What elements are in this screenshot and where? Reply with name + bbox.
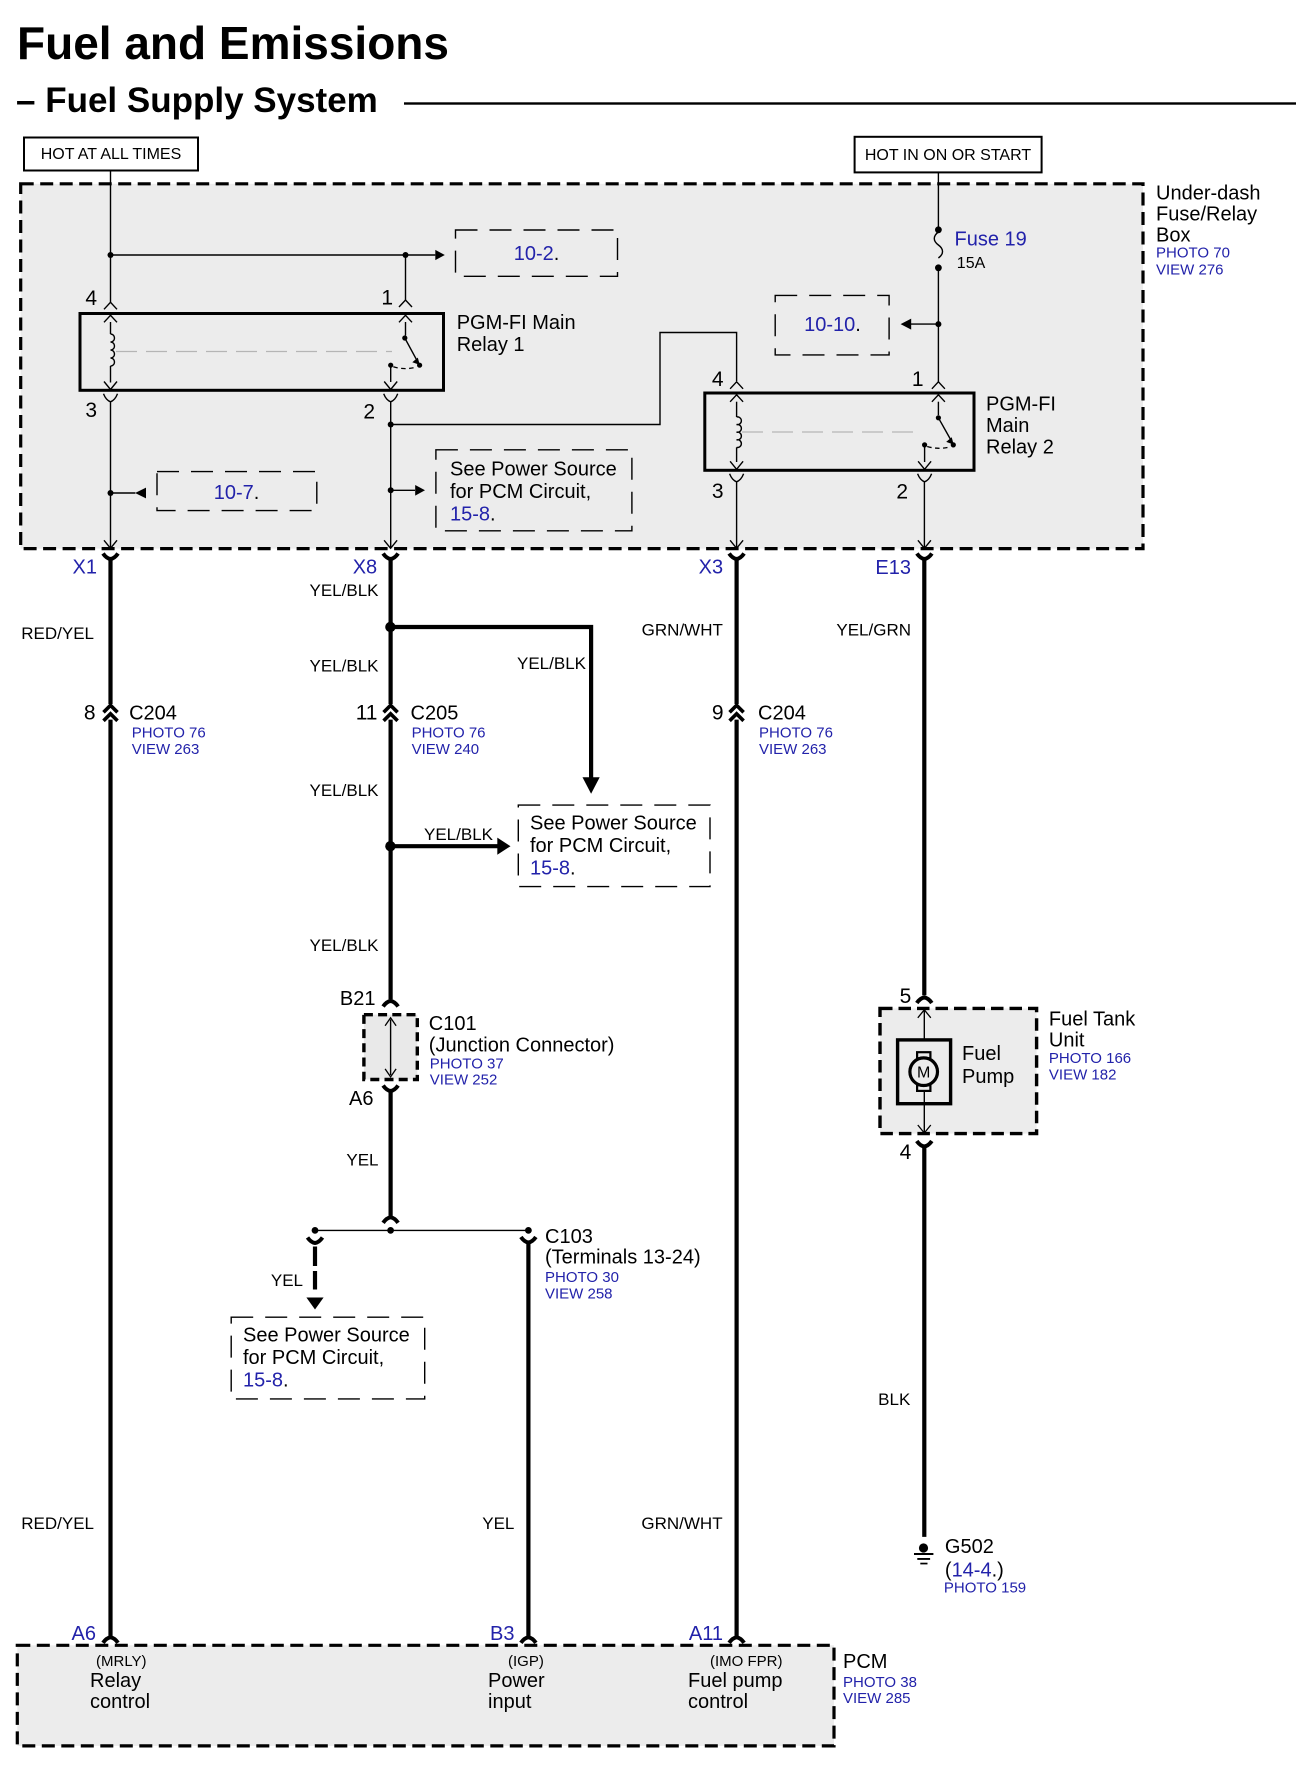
svg-text:YEL/BLK: YEL/BLK bbox=[424, 825, 494, 844]
svg-text:3: 3 bbox=[85, 399, 97, 422]
svg-text:Under-dash: Under-dash bbox=[1156, 183, 1261, 205]
svg-text:PHOTO 30: PHOTO 30 bbox=[545, 1269, 619, 1286]
relay 2 switch bbox=[918, 402, 956, 470]
svg-text:YEL/GRN: YEL/GRN bbox=[836, 621, 911, 640]
svg-text:B21: B21 bbox=[340, 988, 376, 1010]
node junction relay1 pin2 to relay2 link bbox=[388, 422, 394, 428]
svg-text:4: 4 bbox=[900, 1141, 912, 1164]
connector B21 wire end bbox=[383, 1001, 398, 1007]
svg-text:1: 1 bbox=[381, 287, 393, 310]
svg-text:4: 4 bbox=[85, 287, 97, 310]
connector A6 wire start bbox=[383, 1086, 398, 1092]
svg-text:PHOTO 76: PHOTO 76 bbox=[759, 725, 833, 742]
label Under-dash Fuse/Relay Box bbox=[1156, 183, 1261, 279]
wire BLK to ground bbox=[922, 1147, 926, 1537]
svg-text:HOT AT ALL TIMES: HOT AT ALL TIMES bbox=[41, 146, 182, 163]
note box See Power Source 2 bbox=[518, 805, 710, 887]
node junction at top bus bbox=[108, 252, 114, 258]
svg-text:PGM-FI: PGM-FI bbox=[986, 394, 1056, 416]
svg-text:PHOTO 38: PHOTO 38 bbox=[843, 1674, 917, 1691]
svg-text:3: 3 bbox=[712, 480, 724, 503]
svg-text:(Junction Connector): (Junction Connector) bbox=[429, 1035, 615, 1057]
svg-text:15-8.: 15-8. bbox=[530, 858, 576, 880]
svg-text:PHOTO 76: PHOTO 76 bbox=[412, 725, 486, 742]
svg-text:PCM: PCM bbox=[843, 1651, 887, 1673]
svg-text:BLK: BLK bbox=[878, 1390, 911, 1409]
svg-text:GRN/WHT: GRN/WHT bbox=[642, 621, 723, 640]
svg-text:10-7.: 10-7. bbox=[214, 482, 260, 504]
label G502 14-4 PHOTO 159 bbox=[944, 1536, 1026, 1597]
svg-text:C205: C205 bbox=[411, 703, 459, 725]
note box See Power Source 3 bbox=[231, 1317, 425, 1399]
relay 1 switch bbox=[384, 322, 422, 390]
svg-text:10-2.: 10-2. bbox=[514, 243, 560, 265]
fuel tank inner wire top with arrow bbox=[918, 1010, 931, 1052]
svg-text:YEL: YEL bbox=[271, 1271, 303, 1290]
wire YEL to PCM B3 bbox=[526, 1243, 530, 1637]
fuse 19 value label bbox=[955, 229, 1027, 273]
label C103 Terminals 13-24 bbox=[545, 1226, 701, 1303]
arrow to 10-10 reference bbox=[901, 319, 939, 330]
junction connector C101 box bbox=[364, 1015, 417, 1080]
svg-text:Relay 2: Relay 2 bbox=[986, 437, 1054, 459]
node junction at 10-7 tap bbox=[108, 490, 114, 496]
pin 2 connector relay 2 bbox=[918, 474, 932, 482]
node C103 bus left bbox=[312, 1227, 319, 1234]
arrow to power source note 1 bbox=[391, 485, 425, 496]
connector X8 border exit bbox=[383, 540, 398, 559]
connector YEL branch start bbox=[308, 1238, 323, 1244]
svg-text:M: M bbox=[917, 1065, 930, 1082]
svg-text:YEL/BLK: YEL/BLK bbox=[517, 654, 587, 673]
reference box 10-2 bbox=[456, 230, 618, 276]
wire X8 YEL/BLK mid bbox=[389, 720, 393, 1000]
wire from HOT AT ALL TIMES down to relay 1 pin 4 bbox=[110, 171, 112, 303]
wire X1 RED/YEL lower bbox=[108, 720, 112, 1636]
label IMO FPR Fuel pump control bbox=[688, 1653, 783, 1713]
wire link relay 1 pin 2 to relay 2 pin 4 bbox=[391, 333, 737, 425]
svg-text:VIEW 276: VIEW 276 bbox=[1156, 262, 1224, 279]
wire X8 YEL/BLK upper bbox=[389, 559, 393, 704]
fuse F19 bbox=[934, 172, 942, 381]
wire X3 GRN/WHT lower to PCM A11 bbox=[734, 720, 738, 1636]
svg-text:See Power Source: See Power Source bbox=[243, 1325, 410, 1347]
svg-text:(IMO FPR): (IMO FPR) bbox=[710, 1653, 783, 1670]
svg-text:Fuel and Emissions: Fuel and Emissions bbox=[17, 17, 449, 69]
svg-text:15A: 15A bbox=[957, 255, 986, 272]
svg-text:Pump: Pump bbox=[962, 1066, 1014, 1088]
svg-text:HOT IN ON OR START: HOT IN ON OR START bbox=[865, 147, 1031, 164]
arrow into 10-2 reference bbox=[435, 250, 445, 260]
wire relay 2 pin 3 down to X3 bbox=[736, 482, 738, 548]
fuel tank unit box bbox=[880, 1008, 1037, 1133]
label C204 PHOTO 76 VIEW 263 bbox=[129, 703, 206, 759]
label Fuel Tank Unit bbox=[1049, 1009, 1136, 1084]
connector wire end at C103 bus bbox=[383, 1217, 398, 1223]
relay U2 PGM-FI Main Relay 2 body bbox=[705, 393, 974, 470]
arrow to power source note 2 bbox=[390, 838, 510, 855]
pin 3 connector relay 2 bbox=[730, 474, 744, 482]
svg-text:PGM-FI Main: PGM-FI Main bbox=[457, 312, 576, 334]
svg-text:Power: Power bbox=[488, 1670, 545, 1692]
wire relay 1 pin 2 down to X8 bbox=[390, 402, 392, 548]
svg-text:X1: X1 bbox=[73, 557, 97, 579]
wire C103 bus bbox=[315, 1229, 528, 1231]
wire down to relay 1 pin 1 bbox=[405, 255, 407, 300]
node thick junction YEL/BLK branch bbox=[385, 622, 395, 632]
svg-text:control: control bbox=[688, 1691, 748, 1713]
label Fuel Pump bbox=[962, 1043, 1014, 1088]
svg-text:Unit: Unit bbox=[1049, 1030, 1085, 1052]
connector X3 border exit bbox=[729, 540, 744, 559]
wire relay 1 pin 3 down to X1 bbox=[110, 402, 112, 548]
svg-text:G502: G502 bbox=[945, 1536, 994, 1558]
relay 2 internal dashed link bbox=[742, 431, 920, 433]
connector A6 wire end at PCM bbox=[103, 1637, 118, 1643]
power tag HOT IN ON OR START bbox=[855, 137, 1042, 173]
label C101 Junction Connector bbox=[429, 1013, 615, 1089]
svg-text:Fuel Tank: Fuel Tank bbox=[1049, 1009, 1136, 1031]
svg-text:C103: C103 bbox=[545, 1226, 593, 1248]
svg-text:Fuel: Fuel bbox=[962, 1043, 1001, 1065]
node junction see-power tap bbox=[388, 487, 394, 493]
label C204 PHOTO 76 VIEW 263 right bbox=[758, 703, 833, 759]
svg-text:Box: Box bbox=[1156, 225, 1190, 247]
svg-text:PHOTO 37: PHOTO 37 bbox=[430, 1056, 504, 1073]
wire X3 GRN/WHT upper bbox=[734, 559, 738, 704]
wire relay 2 pin 2 down to E13 bbox=[923, 482, 925, 548]
svg-text:C204: C204 bbox=[758, 703, 806, 725]
svg-text:15-8.: 15-8. bbox=[243, 1370, 289, 1392]
svg-text:X3: X3 bbox=[699, 557, 723, 579]
svg-text:10-10.: 10-10. bbox=[804, 314, 861, 336]
svg-text:4: 4 bbox=[712, 368, 724, 391]
svg-text:VIEW 252: VIEW 252 bbox=[430, 1072, 498, 1089]
svg-text:(14-4.): (14-4.) bbox=[945, 1560, 1004, 1582]
node C103 bus right bbox=[525, 1227, 532, 1234]
svg-text:PHOTO 70: PHOTO 70 bbox=[1156, 245, 1230, 262]
svg-text:Main: Main bbox=[986, 415, 1029, 437]
svg-text:11: 11 bbox=[356, 702, 378, 725]
label IGP Power input bbox=[488, 1653, 545, 1713]
svg-text:GRN/WHT: GRN/WHT bbox=[641, 1514, 722, 1533]
svg-text:2: 2 bbox=[363, 401, 375, 424]
node thick junction see-power tap 2 bbox=[385, 841, 395, 851]
relay 2 coil bbox=[730, 402, 743, 470]
svg-text:YEL/BLK: YEL/BLK bbox=[310, 936, 380, 955]
fuel tank inner wire bottom with arrow bbox=[918, 1091, 931, 1133]
svg-text:for PCM Circuit,: for PCM Circuit, bbox=[450, 481, 591, 503]
svg-text:RED/YEL: RED/YEL bbox=[21, 624, 94, 643]
connector A11 wire end at PCM bbox=[729, 1637, 744, 1643]
connector C204 pin 8 bbox=[104, 705, 118, 721]
svg-text:E13: E13 bbox=[875, 557, 911, 579]
svg-text:B3: B3 bbox=[490, 1623, 514, 1645]
pin 4 connector relay 2 bbox=[730, 382, 743, 402]
svg-text:See Power Source: See Power Source bbox=[530, 813, 697, 835]
svg-text:for PCM Circuit,: for PCM Circuit, bbox=[530, 835, 671, 857]
svg-text:VIEW 285: VIEW 285 bbox=[843, 1690, 911, 1707]
label PGM-FI Main Relay 1 bbox=[457, 312, 576, 356]
svg-text:C204: C204 bbox=[129, 703, 177, 725]
node junction above relay 1 pin 1 bbox=[403, 252, 409, 258]
connector B3 wire end at PCM bbox=[521, 1637, 536, 1643]
svg-text:YEL: YEL bbox=[346, 1151, 378, 1170]
svg-text:Fuse 19: Fuse 19 bbox=[955, 229, 1027, 251]
ground G502 bbox=[914, 1543, 933, 1564]
note box See Power Source 1 bbox=[436, 450, 632, 531]
svg-text:PHOTO 166: PHOTO 166 bbox=[1049, 1050, 1131, 1067]
svg-text:(MRLY): (MRLY) bbox=[96, 1653, 147, 1670]
svg-text:See Power Source: See Power Source bbox=[450, 459, 617, 481]
svg-text:Fuse/Relay: Fuse/Relay bbox=[1156, 204, 1257, 226]
svg-text:VIEW 258: VIEW 258 bbox=[545, 1286, 613, 1303]
svg-text:Fuel pump: Fuel pump bbox=[688, 1670, 783, 1692]
svg-text:YEL/BLK: YEL/BLK bbox=[310, 657, 380, 676]
svg-text:A6: A6 bbox=[72, 1623, 96, 1645]
label MRLY Relay control bbox=[90, 1653, 150, 1713]
svg-text:for PCM Circuit,: for PCM Circuit, bbox=[243, 1347, 384, 1369]
svg-text:input: input bbox=[488, 1691, 532, 1713]
PCM box bbox=[17, 1645, 834, 1746]
reference box 10-7 bbox=[157, 472, 317, 511]
svg-text:2: 2 bbox=[896, 481, 908, 504]
label PGM-FI Main Relay 2 bbox=[986, 394, 1056, 459]
svg-text:C101: C101 bbox=[429, 1013, 477, 1035]
node junction 10-10 tap bbox=[935, 321, 941, 327]
motor M1 fuel pump bbox=[898, 1040, 951, 1104]
connector C204 pin 9 bbox=[730, 705, 744, 721]
svg-text:PHOTO 159: PHOTO 159 bbox=[944, 1580, 1026, 1597]
pin 1 connector relay 1 bbox=[399, 300, 412, 322]
svg-text:(Terminals 13-24): (Terminals 13-24) bbox=[545, 1247, 701, 1269]
wire E13 YEL/GRN bbox=[922, 559, 926, 995]
wire YEL/BLK branch elbow to power source note 2 bbox=[390, 627, 599, 794]
svg-text:VIEW 240: VIEW 240 bbox=[412, 741, 480, 758]
connector X1 border exit bbox=[103, 540, 118, 559]
connector B3 branch start bbox=[521, 1237, 536, 1243]
svg-text:control: control bbox=[90, 1691, 150, 1713]
wire YEL from A6 to C103 junction bbox=[389, 1091, 393, 1216]
svg-text:8: 8 bbox=[84, 702, 96, 725]
svg-text:VIEW 263: VIEW 263 bbox=[132, 741, 200, 758]
svg-text:VIEW 263: VIEW 263 bbox=[759, 741, 827, 758]
subtitle rule bbox=[404, 102, 1296, 104]
svg-text:RED/YEL: RED/YEL bbox=[21, 1514, 94, 1533]
svg-text:A6: A6 bbox=[349, 1088, 373, 1110]
relay 1 coil bbox=[104, 322, 117, 390]
svg-text:VIEW 182: VIEW 182 bbox=[1049, 1067, 1117, 1084]
svg-text:5: 5 bbox=[900, 985, 912, 1008]
svg-text:PHOTO 76: PHOTO 76 bbox=[132, 725, 206, 742]
relay 1 internal dashed link bbox=[116, 351, 392, 353]
arrow to 10-7 reference bbox=[111, 488, 147, 499]
under-dash fuse/relay box outline bbox=[21, 184, 1143, 549]
connector fuel tank pin 5 wire end bbox=[917, 998, 932, 1004]
label PCM PHOTO 38 VIEW 285 bbox=[843, 1651, 917, 1707]
wire X1 RED/YEL upper bbox=[108, 559, 112, 704]
relay U1 PGM-FI Main Relay 1 body bbox=[80, 314, 444, 391]
svg-text:A11: A11 bbox=[689, 1623, 723, 1645]
pin 4 connector relay 1 bbox=[104, 302, 117, 322]
connector C205 pin 11 bbox=[384, 705, 398, 721]
svg-text:15-8.: 15-8. bbox=[450, 504, 496, 526]
pin 3 connector relay 1 bbox=[104, 394, 118, 402]
connector fuel tank pin 4 wire start bbox=[917, 1141, 932, 1147]
pin 2 connector relay 1 bbox=[384, 394, 398, 402]
wire YEL dashed drop to power source note 3 bbox=[306, 1247, 323, 1310]
svg-text:YEL: YEL bbox=[482, 1514, 514, 1533]
wire top bus to 10-2 arrow bbox=[111, 254, 436, 256]
svg-text:(IGP): (IGP) bbox=[508, 1653, 544, 1670]
svg-text:9: 9 bbox=[712, 702, 724, 725]
pin 1 connector relay 2 bbox=[932, 382, 945, 402]
svg-text:Relay: Relay bbox=[90, 1670, 141, 1692]
label C205 PHOTO 76 VIEW 240 bbox=[411, 703, 486, 759]
svg-text:– Fuel Supply System: – Fuel Supply System bbox=[16, 81, 378, 120]
svg-text:YEL/BLK: YEL/BLK bbox=[310, 581, 380, 600]
svg-text:Relay 1: Relay 1 bbox=[457, 334, 525, 356]
svg-text:1: 1 bbox=[912, 368, 924, 391]
connector E13 border exit bbox=[917, 540, 932, 559]
node C103 bus center bbox=[387, 1227, 394, 1234]
svg-text:X8: X8 bbox=[353, 557, 377, 579]
reference box 10-10 bbox=[775, 295, 889, 355]
svg-text:YEL/BLK: YEL/BLK bbox=[310, 781, 380, 800]
power tag HOT AT ALL TIMES bbox=[24, 138, 198, 171]
